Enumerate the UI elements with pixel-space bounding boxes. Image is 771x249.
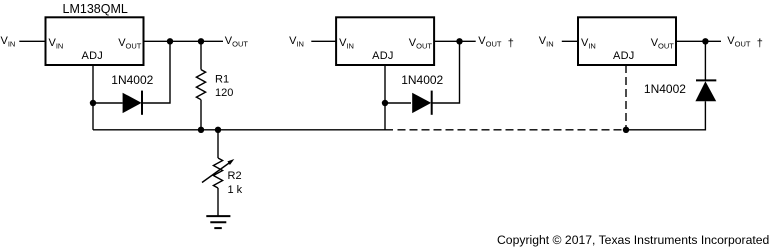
- svg-text:LM138QML: LM138QML: [63, 2, 128, 16]
- wire VIN2 input: [311, 40, 336, 42]
- resistor R1: [196, 41, 205, 130]
- wire D1 cathode to VOUT: [142, 41, 170, 103]
- svg-text:1N4002: 1N4002: [111, 73, 153, 87]
- wire D2 anode: [385, 102, 411, 104]
- svg-text:ADJ: ADJ: [613, 50, 635, 62]
- wire D2 cathode to VOUT: [432, 41, 460, 103]
- wire U2 VOUT output: [434, 40, 476, 42]
- svg-text:R1: R1: [215, 74, 229, 86]
- junction dot R1 bottom: [198, 127, 204, 133]
- wire U3 ADJ dashed down: [625, 65, 627, 130]
- svg-text:ADJ: ADJ: [372, 50, 394, 62]
- wire adjust bus dashed: [394, 129, 627, 131]
- regulator U1 LM138QML: [46, 17, 144, 65]
- svg-text:Copyright © 2017, Texas Instru: Copyright © 2017, Texas Instruments Inco…: [497, 233, 769, 247]
- svg-text:ADJ: ADJ: [82, 50, 104, 62]
- wire D3 anode to adjust bus: [626, 101, 705, 130]
- potentiometer R2: [202, 130, 234, 216]
- wire U1 ADJ down: [92, 65, 94, 130]
- wire U2 ADJ down: [384, 65, 386, 130]
- junction dot adjust bus to U3 ADJ: [623, 127, 629, 133]
- junction dot U2 ADJ / D2 anode: [382, 100, 388, 106]
- diode D3 1N4002: [695, 80, 716, 101]
- wire U1 VOUT output: [144, 40, 224, 42]
- diode D2 1N4002: [412, 91, 432, 115]
- junction dot R2 top: [215, 127, 221, 133]
- wire VIN3 input: [562, 40, 578, 42]
- regulator U3: [578, 17, 676, 65]
- svg-text:1N4002: 1N4002: [401, 73, 443, 87]
- junction dot U3 output / D3 cathode: [702, 38, 708, 44]
- svg-text:1N4002: 1N4002: [644, 82, 686, 96]
- wire adjust bus solid: [93, 129, 393, 131]
- junction dot U1 ADJ / D1 anode: [90, 100, 96, 106]
- wire D3 cathode up: [704, 41, 706, 80]
- ground: [206, 216, 230, 228]
- regulator U2: [336, 17, 434, 65]
- junction dot D1 to output: [167, 38, 173, 44]
- wire D1 anode: [93, 102, 123, 104]
- svg-text:1 k: 1 k: [228, 184, 243, 196]
- diode D1 1N4002: [123, 91, 142, 115]
- junction dot R1 top: [198, 38, 204, 44]
- svg-text:R2: R2: [228, 170, 242, 182]
- wire VIN1 input: [19, 40, 45, 42]
- svg-text:120: 120: [215, 87, 233, 99]
- junction dot U2 output: [456, 38, 462, 44]
- wire U3 VOUT output: [676, 40, 721, 42]
